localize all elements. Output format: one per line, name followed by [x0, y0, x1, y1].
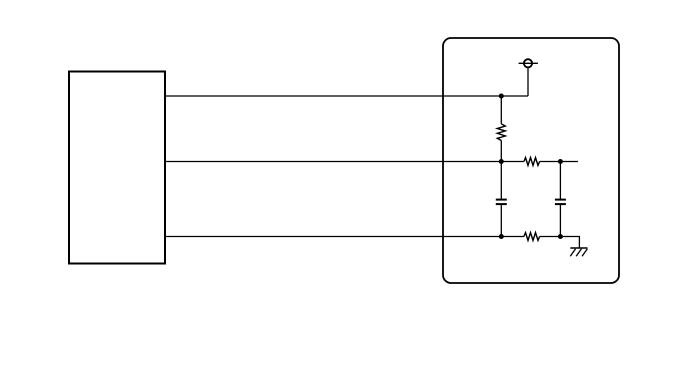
wire terminal riser [527, 68, 529, 96]
wire output stub [560, 161, 578, 163]
wire capacitor C1 to node D [500, 205, 502, 237]
wire node B to resistor R2 [501, 161, 524, 163]
wire bottom net: left block to node D [165, 236, 501, 238]
wire node A to resistor R1 [500, 96, 502, 124]
resistor R1 (vertical) [497, 124, 505, 141]
resistor R3 (horizontal) [524, 233, 540, 241]
terminal T1 (open circle with crossbar) [519, 59, 538, 67]
wire top net: left block to terminal [165, 95, 528, 97]
wire node E to ground [560, 237, 579, 249]
node B (junction middle wire) [499, 159, 504, 164]
wire capacitor C2 to node E [559, 205, 561, 237]
node C (junction output) [558, 159, 563, 164]
wire resistor R3 to node E [540, 236, 561, 238]
wire middle net: left block to node B [165, 161, 501, 163]
wire resistor R1 to node B [500, 141, 502, 162]
network enclosure box (rounded) [443, 38, 619, 283]
wire node B to capacitor C1 [500, 162, 502, 200]
node D (junction bottom wire) [499, 234, 504, 239]
wire node C to capacitor C2 [559, 162, 561, 200]
resistor R2 (horizontal) [524, 158, 540, 166]
wire node D to resistor R3 [501, 236, 524, 238]
capacitor C1 [496, 200, 507, 205]
ground (chassis) [570, 248, 587, 256]
node E (junction ground leg) [558, 234, 563, 239]
capacitor C2 [555, 200, 566, 205]
wire resistor R2 to node C [540, 161, 561, 163]
left block (source module) [69, 72, 165, 264]
node A (junction top wire) [499, 94, 504, 99]
